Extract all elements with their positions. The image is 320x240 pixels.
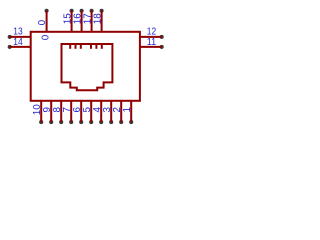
svg-text:14: 14 [13, 37, 23, 48]
svg-text:1: 1 [122, 107, 133, 113]
svg-text:0: 0 [40, 34, 51, 40]
svg-text:11: 11 [147, 37, 157, 48]
svg-text:18: 18 [93, 13, 104, 24]
svg-text:0: 0 [37, 19, 48, 25]
